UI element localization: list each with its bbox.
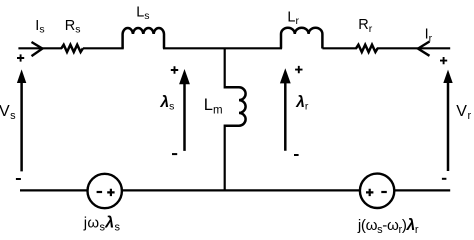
wire Rs to Ls — [83, 47, 124, 49]
bottom rail left segment — [20, 189, 88, 191]
svg-text:λs: λs — [160, 94, 175, 113]
svg-text:Is: Is — [35, 18, 44, 36]
flux arrow lambda-r — [280, 68, 291, 151]
plus sign Vr — [440, 57, 447, 64]
minus sign Vr — [442, 178, 447, 180]
plus sign lambda-s — [171, 66, 178, 73]
svg-text:Rs: Rs — [65, 18, 81, 36]
wire top-left segment — [18, 47, 62, 49]
wire Ls to Lr across node — [163, 47, 282, 49]
current arrow Is head — [32, 42, 43, 56]
current arrow Ir head — [418, 42, 430, 56]
svg-text:jωsλs: jωsλs — [83, 215, 121, 234]
svg-text:λr: λr — [295, 94, 309, 113]
inductor Ls — [123, 28, 164, 48]
svg-text:Vs: Vs — [0, 103, 16, 122]
bottom rail right segment — [395, 189, 451, 191]
flux arrow lambda-s — [179, 69, 190, 151]
source1 minus sign — [97, 191, 103, 193]
source2 minus sign — [381, 191, 387, 193]
resistor Rr — [356, 45, 378, 52]
source1 plus sign — [107, 189, 114, 196]
inductor Lr — [281, 28, 322, 49]
minus sign lambda-r — [294, 154, 299, 156]
svg-text:Vr: Vr — [456, 103, 471, 122]
svg-text:Lr: Lr — [287, 9, 299, 27]
svg-text:Rr: Rr — [358, 17, 372, 35]
source2 plus sign — [366, 189, 373, 196]
minus sign Vs — [16, 178, 21, 180]
wire Lr to Rr — [322, 47, 357, 49]
voltage source j(ws-wr)lr circle — [360, 174, 394, 208]
plus sign lambda-r — [295, 66, 302, 73]
voltage arrow Vs — [17, 69, 26, 171]
svg-text:Ls: Ls — [136, 4, 149, 22]
inductor Lm branch wire from node — [224, 48, 226, 88]
svg-text:j(ωs-ωr)λr: j(ωs-ωr)λr — [357, 217, 419, 236]
resistor Rs — [61, 45, 83, 52]
inductor Lm — [225, 87, 246, 125]
bottom rail middle segment — [122, 189, 359, 191]
wire Lm to bottom rail — [224, 125, 226, 192]
svg-text:Lm: Lm — [204, 96, 223, 116]
voltage arrow Vr — [443, 70, 452, 171]
voltage source jws.ls circle — [88, 174, 122, 208]
plus sign Vs — [17, 54, 24, 61]
wire top-right segment — [377, 47, 450, 49]
svg-text:Ir: Ir — [425, 27, 433, 45]
minus sign lambda-s — [172, 153, 177, 155]
